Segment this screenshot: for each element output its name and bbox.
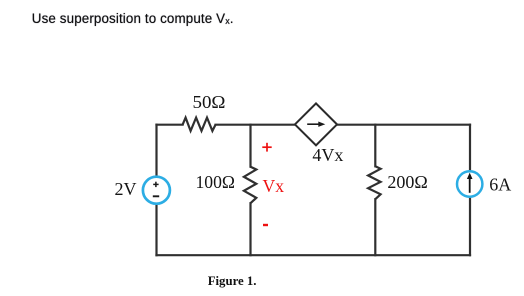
svg-text:50Ω: 50Ω [193,92,226,112]
svg-text:Vx: Vx [263,176,285,196]
svg-text:2V: 2V [115,179,137,199]
svg-text:200Ω: 200Ω [387,172,427,192]
svg-text:Figure 1.: Figure 1. [208,274,257,288]
svg-text:100Ω: 100Ω [196,172,236,192]
svg-text:4Vx: 4Vx [312,145,343,165]
svg-text:6A: 6A [489,174,511,194]
